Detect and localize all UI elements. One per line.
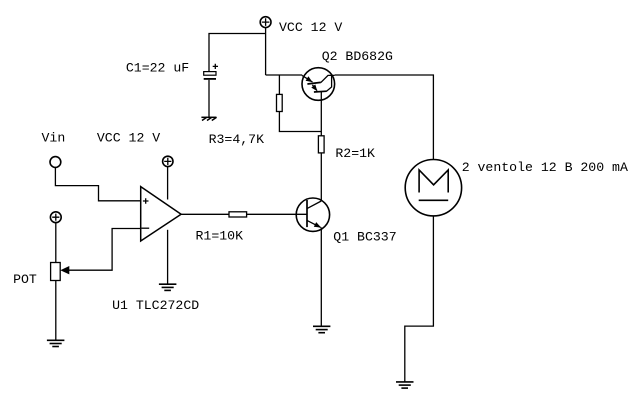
wire POT bottom to ground xyxy=(55,281,57,341)
wire Q2 collector to motor xyxy=(335,75,434,160)
terminal Vin xyxy=(50,157,61,168)
wire Q1 emitter to ground xyxy=(320,227,322,326)
resistor R3 xyxy=(277,94,283,111)
ground U1 xyxy=(159,284,177,290)
capacitor C1 xyxy=(204,64,218,79)
wire C1 to ground xyxy=(208,80,210,118)
motor M 2 ventole xyxy=(405,160,461,216)
power VCC symbol U1 xyxy=(163,156,173,166)
svg-text:Q2 BD682G: Q2 BD682G xyxy=(322,49,393,64)
wire U1 V- to ground xyxy=(167,230,169,284)
wire R1 to Q1 base xyxy=(247,213,307,215)
svg-text:U1 TLC272CD: U1 TLC272CD xyxy=(112,298,199,313)
ground C1 (hatched) xyxy=(201,117,216,120)
wire POT wiper to U1 minus input xyxy=(60,229,140,275)
wire POT terminal down xyxy=(55,223,57,263)
svg-text:R2=1K: R2=1K xyxy=(335,146,375,161)
ground Q1 xyxy=(313,326,330,332)
op-amp U1 xyxy=(141,187,181,241)
svg-text:Q1 BC337: Q1 BC337 xyxy=(333,229,396,244)
wire R3 bottom to base node xyxy=(279,112,321,132)
wire base node to R2 xyxy=(320,132,322,136)
wire R3 top xyxy=(278,75,280,94)
ground motor xyxy=(396,382,414,388)
wire VCC symbol down to rail xyxy=(265,28,267,76)
wire Vin to U1 plus input xyxy=(55,168,140,201)
svg-text:VCC 12 V: VCC 12 V xyxy=(97,131,160,146)
power VCC symbol top xyxy=(260,17,271,28)
wire R2 to Q1 collector xyxy=(320,153,322,201)
wire rail VCC to Q2 emitter xyxy=(266,74,303,76)
terminal POT top xyxy=(50,212,61,223)
svg-text:VCC 12 V: VCC 12 V xyxy=(279,20,342,35)
potentiometer POT xyxy=(51,263,61,281)
resistor R2 xyxy=(318,136,324,153)
svg-text:POT: POT xyxy=(13,272,37,287)
svg-text:C1=22 uF: C1=22 uF xyxy=(126,61,189,76)
svg-text:Vin: Vin xyxy=(42,131,66,146)
resistor R1 xyxy=(229,212,247,217)
wire U1 output to R1 xyxy=(181,213,229,215)
wire U1 V+ xyxy=(167,167,169,200)
wire motor to ground xyxy=(405,216,434,382)
transistor Q2 xyxy=(302,68,335,132)
wire VCC to C1 top xyxy=(209,34,266,72)
svg-text:2 ventole 12 B 200 mA: 2 ventole 12 B 200 mA xyxy=(462,160,628,175)
transistor Q1 xyxy=(296,198,329,231)
ground POT xyxy=(47,340,65,346)
svg-text:R1=10K: R1=10K xyxy=(196,229,244,244)
svg-text:R3=4,7K: R3=4,7K xyxy=(209,132,264,147)
